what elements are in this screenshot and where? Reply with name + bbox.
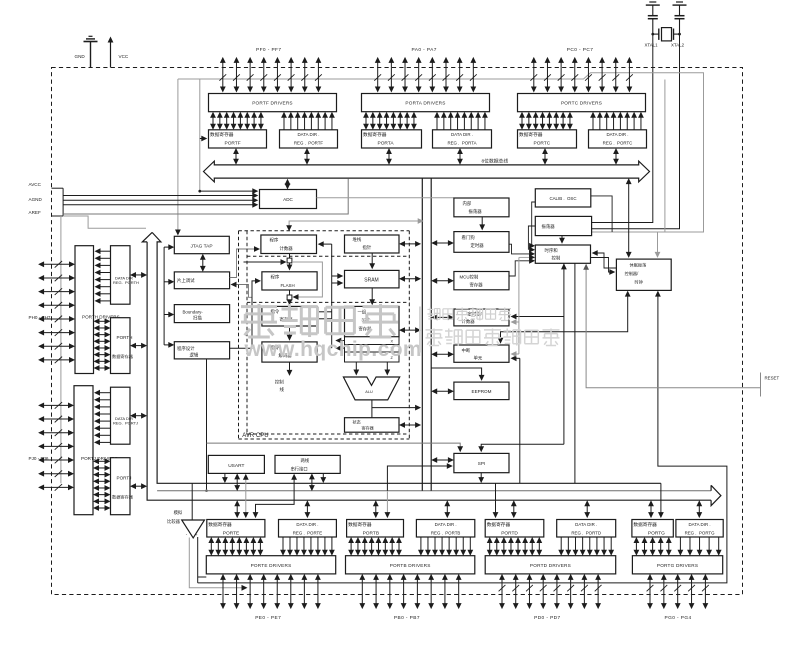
boundary-scan box	[174, 305, 229, 323]
svg-text:数据寄存器: 数据寄存器	[208, 521, 232, 528]
svg-text:VCC: VCC	[119, 54, 129, 59]
instruction decoder box	[262, 342, 317, 362]
wire ADC to bus	[287, 182, 289, 187]
svg-text:程序: 程序	[270, 237, 279, 244]
data bus (left vertical)	[142, 232, 711, 500]
svg-text:比较器: 比较器	[167, 518, 181, 525]
EEPROM box	[454, 382, 509, 400]
PORTE DRIVERS box	[206, 556, 335, 574]
svg-text:SRAM: SRAM	[364, 278, 378, 284]
svg-text:振荡器: 振荡器	[469, 208, 483, 215]
svg-text:EEPROM: EEPROM	[472, 389, 492, 394]
RESET wire	[586, 267, 760, 388]
PORTJ data register box	[111, 458, 131, 515]
timer/counters box	[454, 309, 509, 326]
svg-text:PG0 - PG4: PG0 - PG4	[665, 615, 692, 621]
wires PORTA registers to data bus	[388, 151, 390, 162]
central vertical data bus	[421, 178, 423, 491]
wires JTAG column	[163, 247, 165, 345]
wire counter to flash + squares	[289, 254, 291, 268]
wire PORTJ data register to bus	[133, 485, 144, 487]
svg-text:PJ0 - PJ6: PJ0 - PJ6	[29, 456, 49, 461]
svg-text:PORTF DRIVERS: PORTF DRIVERS	[252, 101, 293, 106]
wire to SPI top	[207, 443, 461, 449]
svg-text:状态: 状态	[353, 418, 361, 424]
wire PORTJ dir register to bus	[133, 415, 144, 417]
svg-text:Boundary-: Boundary-	[183, 310, 204, 315]
wire oscillator to timing	[561, 236, 563, 241]
register Y row	[345, 345, 400, 353]
svg-text:DATA DIR .: DATA DIR .	[575, 522, 597, 527]
long wire sleep ctrl around bottom	[198, 294, 727, 583]
PORTJ pin arrows	[41, 404, 71, 406]
PORTF data direction register box	[280, 130, 338, 148]
program flash box	[262, 272, 317, 290]
svg-text:PB0 - PB7: PB0 - PB7	[394, 615, 420, 621]
VCC supply	[110, 40, 112, 68]
ADC box	[260, 190, 317, 209]
TWI wires	[311, 476, 313, 488]
svg-text:REG. PORTJ: REG. PORTJ	[113, 421, 138, 426]
svg-text:PH0 - PH7: PH0 - PH7	[29, 315, 51, 320]
wires PORTH drivers to dir register	[98, 250, 111, 252]
analog comparator triangle	[182, 520, 205, 538]
svg-text:内部: 内部	[463, 200, 472, 207]
svg-text:中断: 中断	[462, 347, 471, 354]
PORTC pin arrows	[533, 60, 535, 90]
register X row	[345, 337, 400, 345]
wire flash to instruction register	[289, 290, 291, 302]
PORTH data register box	[111, 318, 131, 374]
wires PORTF registers to data bus	[235, 151, 237, 162]
svg-text:PE0 - PE7: PE0 - PE7	[255, 615, 281, 621]
svg-text:PORTA DRIVERS: PORTA DRIVERS	[405, 101, 445, 106]
svg-text:休眠振荡: 休眠振荡	[630, 262, 647, 269]
PORTD pin arrows	[501, 577, 503, 606]
on-chip debug box	[174, 272, 229, 289]
svg-text:PORTB DRIVERS: PORTB DRIVERS	[390, 563, 431, 568]
USART box	[208, 455, 264, 473]
pin bracket	[52, 187, 64, 189]
svg-text:PORTG: PORTG	[648, 530, 665, 536]
MCU control register box	[454, 272, 509, 290]
wire ALU output	[371, 400, 373, 418]
svg-text:PORTE: PORTE	[223, 530, 239, 536]
svg-text:www.hqchip.com: www.hqchip.com	[244, 338, 423, 361]
svg-text:PORTF: PORTF	[225, 141, 241, 147]
svg-text:寄存器: 寄存器	[362, 425, 374, 431]
ALU	[343, 377, 399, 400]
capacitors to ground at XTAL1/XTAL2	[649, 1, 656, 3]
wire osc to watchdog	[481, 217, 483, 228]
PORTH DRIVERS box	[75, 246, 94, 374]
PORTD data direction register box	[557, 520, 616, 538]
svg-text:DATA DIR .: DATA DIR .	[606, 132, 628, 137]
PORTD data register box	[485, 520, 544, 538]
svg-text:数据寄存器: 数据寄存器	[633, 521, 657, 528]
PORTE pin arrows	[222, 577, 224, 606]
PORTH data direction register box	[111, 246, 131, 305]
PORTA data register box	[362, 130, 422, 148]
wire PORTH dir register to bus	[133, 274, 144, 276]
wires PORTJ drivers to data register	[96, 460, 108, 462]
wire ADC to internal oscillator	[317, 197, 454, 199]
svg-text:串行接口: 串行接口	[291, 465, 308, 472]
svg-text:PORTB: PORTB	[363, 530, 379, 536]
wire CALIB right	[591, 196, 612, 232]
wires PORTE registers-drivers	[210, 540, 212, 553]
svg-text:数据寄存器: 数据寄存器	[210, 131, 234, 138]
svg-text:PORTH: PORTH	[117, 335, 133, 340]
svg-text:控制: 控制	[552, 255, 561, 262]
svg-text:PORTC: PORTC	[534, 141, 551, 147]
svg-text:程序: 程序	[271, 274, 280, 281]
wire to program counter	[289, 221, 420, 228]
instruction register box	[262, 306, 317, 326]
wire stack pointer to SRAM	[371, 253, 373, 266]
wires analog to ADC	[63, 195, 255, 197]
stack pointer box	[345, 235, 400, 253]
svg-text:ALU: ALU	[365, 390, 373, 394]
oscillator box	[535, 216, 591, 235]
wire programming logic down	[206, 359, 208, 491]
svg-text:FLASH: FLASH	[281, 283, 295, 288]
wires PORTJ drivers to dir register	[97, 392, 111, 394]
svg-text:PORTE DRIVERS: PORTE DRIVERS	[251, 563, 292, 568]
PORTG DRIVERS box	[632, 556, 722, 574]
wire to OCD	[235, 285, 253, 298]
PORTC data register box	[518, 130, 577, 148]
CPU double arrows to bus	[402, 243, 418, 245]
svg-text:AVCC: AVCC	[29, 182, 42, 187]
svg-text:指针: 指针	[363, 244, 372, 251]
svg-text:REG . PORTD: REG . PORTD	[571, 531, 601, 536]
wire SPI to bus bottom	[480, 473, 482, 480]
PORTC DRIVERS box	[518, 94, 646, 112]
wires PORTH drivers to data register	[97, 320, 108, 322]
svg-text:REG . PORTE: REG . PORTE	[293, 531, 323, 536]
double arrows bus to peripherals	[434, 242, 451, 244]
svg-text:XTAL2: XTAL2	[671, 43, 685, 48]
wires PORTF drivers-registers	[212, 115, 214, 127]
svg-text:控制器/: 控制器/	[625, 270, 640, 277]
svg-text:数据寄存器: 数据寄存器	[112, 353, 134, 360]
svg-text:振荡器: 振荡器	[542, 223, 556, 230]
wire gray clock routing	[178, 73, 704, 232]
wires PORTA drivers-registers	[365, 115, 367, 127]
PORTE data direction register box	[279, 520, 337, 538]
data bus (bottom horizontal) top edge	[157, 490, 711, 492]
PORTF pin arrows	[222, 60, 224, 90]
PORTA pin arrows	[377, 60, 379, 90]
svg-text:两线: 两线	[301, 457, 310, 463]
PORTE data register box	[207, 520, 265, 538]
RESET pin	[760, 373, 762, 397]
svg-text:REG . PORTF: REG . PORTF	[294, 141, 324, 146]
wires registers to ALU	[355, 362, 357, 373]
comparator input wire	[191, 483, 193, 520]
svg-text:线: 线	[280, 386, 285, 392]
wire decoder to control lines	[289, 362, 291, 373]
wire down to port F data register	[199, 79, 201, 191]
svg-text:时钟: 时钟	[635, 278, 643, 285]
wires timing <-> sleep ctrl	[595, 253, 616, 268]
wire gray self-prog loop	[292, 262, 322, 297]
CALIB OSC box	[535, 189, 591, 207]
wire OCD to program counter	[230, 249, 256, 278]
PORTG data direction register box	[676, 520, 723, 538]
wires PORTG registers-drivers	[635, 540, 637, 553]
PORTB pin arrows	[361, 577, 363, 606]
crystal	[652, 19, 654, 34]
svg-text:PORTG DRIVERS: PORTG DRIVERS	[657, 563, 698, 568]
svg-text:SPI: SPI	[478, 461, 485, 466]
svg-text:AREF: AREF	[29, 210, 41, 215]
wire to SPI left	[387, 466, 449, 491]
programming logic box	[174, 342, 229, 359]
timing and control box	[535, 245, 590, 263]
svg-text:USART: USART	[228, 463, 244, 469]
wires PORTC registers to data bus	[544, 151, 546, 162]
svg-text:数据寄存器: 数据寄存器	[348, 521, 372, 528]
svg-text:片上调试: 片上调试	[177, 277, 195, 284]
svg-text:PF0 - PF7: PF0 - PF7	[256, 47, 281, 53]
svg-text:PD0 - PD7: PD0 - PD7	[534, 615, 561, 621]
wires PORTB registers-drivers	[350, 540, 352, 553]
svg-text:ADC: ADC	[283, 197, 293, 202]
internal oscillator box	[454, 198, 509, 217]
svg-text:数据寄存器: 数据寄存器	[112, 494, 134, 501]
AVR CPU dashed boundary	[239, 230, 410, 232]
wires bus to bottom registers	[236, 503, 238, 515]
wire programming logic to flash	[230, 281, 257, 348]
bus to sleep controller	[628, 181, 630, 255]
outer dashed border	[52, 68, 743, 595]
svg-text:扫描: 扫描	[193, 315, 202, 322]
PORTF data register box	[209, 130, 267, 148]
PORTB data register box	[347, 520, 404, 538]
feeders into timing control	[532, 202, 536, 246]
svg-text:DATA DIR .: DATA DIR .	[689, 522, 711, 527]
PORTG data register box	[632, 520, 673, 538]
svg-text:PORTA: PORTA	[378, 141, 395, 147]
wire sleep ctrl to interrupt unit	[501, 294, 628, 342]
SRAM box	[345, 270, 400, 288]
PORTA DRIVERS box	[362, 94, 490, 112]
svg-text:AVR CPU: AVR CPU	[242, 433, 268, 439]
wire down to JTAG TAP	[177, 79, 179, 231]
svg-text:XTAL1: XTAL1	[645, 43, 659, 48]
wires PORTC drivers-registers	[521, 115, 523, 127]
PORTB DRIVERS box	[346, 556, 475, 574]
svg-text:一组: 一组	[358, 309, 367, 315]
wire IR to decoder	[289, 326, 291, 338]
svg-text:DATA DIR .: DATA DIR .	[296, 522, 318, 527]
svg-text:控制: 控制	[275, 379, 284, 386]
general purpose registers box	[345, 306, 400, 336]
PORTA data direction register box	[433, 130, 492, 148]
JTAG TAP box	[174, 236, 229, 253]
svg-text:数据寄存器: 数据寄存器	[487, 521, 511, 528]
svg-text:PA0 - PA7: PA0 - PA7	[412, 47, 437, 53]
svg-text:DATA DIR .: DATA DIR .	[451, 132, 473, 137]
svg-text:程序设计: 程序设计	[177, 345, 195, 352]
wire SRAM to registers	[371, 288, 373, 302]
status register box	[345, 418, 400, 433]
PORTJ data direction register box	[111, 387, 131, 444]
svg-text:REG. PORTH: REG. PORTH	[113, 280, 139, 285]
wire XTAL2 to oscillator	[592, 34, 680, 229]
svg-text:PORTD DRIVERS: PORTD DRIVERS	[530, 563, 571, 568]
wires into timer and interrupt right side	[563, 263, 565, 444]
two-wire serial interface box	[275, 455, 340, 473]
wire IR indirect addressing	[317, 311, 332, 313]
PORTC data direction register box	[589, 130, 647, 148]
PORTJ DRIVERS box	[74, 386, 93, 515]
svg-text:RESET: RESET	[765, 376, 780, 381]
svg-text:MCU控制: MCU控制	[460, 274, 479, 281]
svg-text:看门狗: 看门狗	[462, 234, 476, 241]
svg-text:PC0 - PC7: PC0 - PC7	[567, 47, 594, 53]
ground GND	[90, 42, 92, 68]
svg-text:数据寄存器: 数据寄存器	[519, 131, 543, 138]
svg-text:PORTC DRIVERS: PORTC DRIVERS	[561, 101, 602, 106]
svg-text:定时器: 定时器	[471, 242, 485, 249]
register Z row	[345, 352, 400, 362]
svg-text:JTAG TAP: JTAG TAP	[190, 244, 212, 250]
SPI box	[454, 453, 509, 472]
svg-text:堆栈: 堆栈	[353, 236, 362, 243]
watermark	[241, 304, 277, 337]
interrupt unit box	[454, 345, 509, 362]
svg-text:GND: GND	[75, 54, 86, 59]
8-bit data bus (top)	[204, 161, 650, 182]
program counter box	[261, 235, 317, 254]
svg-text:计数器: 计数器	[280, 245, 294, 252]
gray wire left column	[60, 216, 62, 483]
comparator pin taps	[189, 538, 244, 588]
svg-text:DATA DIR .: DATA DIR .	[297, 132, 319, 137]
svg-text:CALIB . OSC: CALIB . OSC	[549, 196, 576, 201]
svg-text:单元: 单元	[474, 355, 483, 362]
wire to SPI top (black)	[481, 444, 564, 449]
PORTG pin arrows	[649, 577, 651, 606]
USART wires	[224, 473, 226, 480]
svg-text:AGND: AGND	[29, 197, 43, 202]
svg-text:逻辑: 逻辑	[190, 352, 199, 359]
PORTH pin arrows	[41, 263, 72, 265]
wire bus to EEPROM top	[431, 368, 481, 378]
wires PORTD registers-drivers	[489, 540, 491, 553]
svg-text:DATA DIR .: DATA DIR .	[435, 522, 457, 527]
svg-text:寄存器: 寄存器	[470, 282, 484, 289]
svg-text:REG . PORTG: REG . PORTG	[685, 531, 716, 536]
data bus right arrow tip	[711, 485, 721, 505]
wire AREF reference	[63, 179, 348, 214]
svg-text:数据寄存器: 数据寄存器	[363, 131, 387, 138]
svg-text:8位数据总线: 8位数据总线	[482, 158, 509, 165]
wire XTAL1 to oscillator	[592, 34, 653, 222]
PORTD DRIVERS box	[485, 556, 616, 574]
svg-text:PORTD: PORTD	[501, 530, 518, 536]
PORTB data direction register box	[416, 520, 474, 538]
sleep/osc control box	[616, 259, 671, 290]
svg-text:PORTJ: PORTJ	[117, 476, 132, 481]
svg-text:REG . PORTA: REG . PORTA	[447, 141, 476, 146]
watchdog timer box	[454, 232, 509, 253]
svg-text:REG . PORTC: REG . PORTC	[603, 141, 633, 146]
wire PORTH data register to bus	[133, 345, 144, 347]
svg-text:REG . PORTB: REG . PORTB	[431, 531, 461, 536]
svg-text:模拟: 模拟	[174, 509, 183, 516]
gray branch into sleep ctrl	[657, 232, 659, 255]
PORTF DRIVERS box	[209, 94, 337, 112]
svg-text:时序和: 时序和	[545, 247, 558, 254]
